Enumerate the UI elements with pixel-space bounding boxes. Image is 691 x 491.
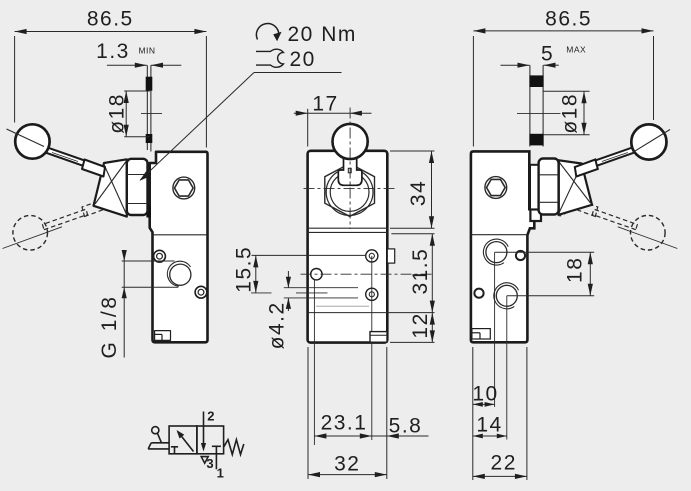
dimension 15.5: [252, 255, 367, 293]
seam line (left view): [153, 234, 208, 236]
svg-text:10: 10: [472, 383, 498, 406]
svg-text:22: 22: [491, 452, 517, 475]
ø4.2 hole lines (middle view): [284, 287, 358, 289]
svg-text:86.5: 86.5: [545, 8, 592, 31]
svg-text:5.8: 5.8: [389, 415, 423, 438]
toggle hex nut (middle view): [325, 164, 375, 217]
valve squares: [169, 426, 197, 454]
svg-text:ø18: ø18: [105, 93, 128, 134]
centerline dashed lever axis (left view): [3, 227, 63, 249]
bottom right block (middle view): [370, 332, 387, 343]
dimension 1.3 MIN: [107, 63, 181, 68]
dimension 5 MAX: [501, 63, 559, 68]
svg-text:23.1: 23.1: [321, 412, 368, 435]
dimension 86.5 (right view): [473, 28, 653, 146]
dimension 12: [390, 313, 435, 343]
dimension ø18 (left view): [124, 91, 150, 137]
lever shaft (right view): [592, 146, 637, 167]
dashed boot edge (left view): [105, 209, 126, 216]
dimension 86.5 (left view): [15, 29, 207, 148]
bushing between body and nut (right view): [530, 165, 539, 210]
svg-text:1.3: 1.3: [96, 40, 130, 63]
bottom-left notch (left view): [155, 331, 171, 341]
dimension ø18 (right view): [544, 91, 590, 135]
left screw (middle view): [311, 269, 322, 280]
panel nut (left view): [127, 159, 148, 215]
dimension 10 (right view): [473, 347, 527, 480]
dimension 23.1 / 5.8: [308, 347, 429, 479]
hex socket screw (right view): [485, 177, 507, 199]
right screw bottom (middle view): [366, 288, 378, 300]
centerline through panel hole (right view): [517, 112, 561, 114]
svg-text:86.5: 86.5: [87, 8, 134, 31]
panel nut (right view): [539, 159, 559, 215]
dashed boot edge (right view): [560, 209, 575, 216]
torque icon circular arrow: [256, 23, 278, 39]
screw axis line (middle view): [371, 256, 373, 440]
side tab (middle view): [387, 249, 394, 263]
dimension 18 (right view): [495, 252, 595, 296]
dashed ball (right view): [631, 215, 666, 250]
feature line x=314.4 (middle view): [313, 280, 315, 445]
right screw top (middle view): [366, 250, 378, 262]
lever actuator: [152, 427, 159, 434]
dimension 22 (right view): [473, 474, 527, 479]
svg-text:20: 20: [290, 48, 316, 71]
centerline lever axis (left view): [7, 129, 45, 147]
dimension 34: [390, 151, 435, 228]
svg-text:1: 1: [217, 465, 224, 480]
body (right view): [471, 151, 534, 342]
svg-text:ø4.2: ø4.2: [265, 301, 288, 349]
svg-text:17: 17: [312, 93, 338, 116]
dimension 32: [308, 472, 387, 477]
bottom-left notch (right view): [472, 329, 490, 339]
svg-text:G 1/8: G 1/8: [98, 295, 121, 359]
seam line (right view): [471, 234, 528, 236]
seam lines (middle view): [308, 227, 388, 229]
port 2 circle (right view): [496, 285, 517, 306]
svg-text:2: 2: [207, 408, 214, 423]
lever shaft (left view): [43, 146, 88, 167]
toggle chamfer circles (middle view): [326, 169, 373, 216]
centerline through panel hole (left view): [141, 112, 162, 114]
svg-text:34: 34: [407, 180, 430, 206]
dimension 31.5: [308, 234, 435, 313]
dashed lever shaft (down position, right view): [575, 200, 638, 230]
svg-text:MIN: MIN: [138, 46, 155, 56]
horizontal centerline ports (middle view): [301, 273, 435, 275]
svg-text:ø18: ø18: [558, 93, 581, 134]
port 1 line: [215, 454, 217, 470]
dimension 14 (right view): [473, 434, 507, 439]
lever ball (right view): [631, 124, 666, 159]
right square blocked port: [215, 446, 217, 454]
centerline lever axis (right view): [633, 130, 671, 153]
svg-text:14: 14: [476, 414, 502, 437]
lever ball (middle view): [333, 124, 368, 159]
dashed ball (left view): [13, 216, 48, 251]
body (middle view): [308, 151, 388, 343]
small screw ring bottom (left view): [195, 286, 207, 298]
panel cross-section (right view): [530, 65, 543, 146]
dimension ø4.2: [286, 271, 291, 311]
left square arrow: [178, 432, 194, 452]
spring: [224, 440, 244, 455]
toggle stem (middle view): [338, 152, 362, 185]
centerline dashed lever axis (right view): [618, 227, 678, 249]
port 1 circle (right view): [486, 242, 507, 263]
svg-text:3: 3: [206, 456, 213, 471]
vertical centerline (middle view): [349, 108, 351, 230]
lever boot cone (left view): [94, 159, 127, 216]
lever boot cone (right view): [559, 160, 592, 215]
dimension 17: [294, 109, 372, 147]
panel cross-section (left view): [147, 65, 151, 151]
svg-text:15.5: 15.5: [232, 246, 255, 293]
svg-text:32: 32: [334, 452, 360, 475]
port 2 line: [203, 412, 205, 427]
hex socket screw (left view): [173, 177, 195, 199]
small circle right (right view): [516, 251, 525, 260]
G1/8 port circle (left view): [170, 264, 191, 285]
wrench icon: [256, 49, 283, 67]
small screw ring top (left view): [154, 250, 166, 262]
svg-text:18: 18: [564, 257, 587, 283]
panel section bar under nut (left view): [146, 206, 151, 218]
right square flow arrow: [203, 426, 205, 446]
port centerlines extended (right view): [494, 252, 496, 407]
left square blocked port: [174, 447, 176, 454]
body (left view): [150, 152, 208, 342]
svg-text:31.5: 31.5: [409, 248, 432, 295]
dashed lever shaft (down position, left view): [43, 200, 106, 230]
leader from wrench to nut: [140, 73, 342, 181]
svg-text:20 Nm: 20 Nm: [288, 23, 357, 46]
svg-text:5: 5: [541, 43, 554, 66]
horizontal centerline toggle (middle view): [304, 187, 398, 189]
svg-text:12: 12: [409, 312, 432, 338]
svg-text:MAX: MAX: [566, 45, 586, 55]
faint interior line (middle view): [316, 305, 369, 307]
small circle left (right view): [474, 289, 483, 298]
lever ball (left view): [15, 124, 49, 158]
G 1/8 label and leader (left view): [122, 250, 179, 358]
exhaust 3 triangle: [201, 457, 208, 464]
